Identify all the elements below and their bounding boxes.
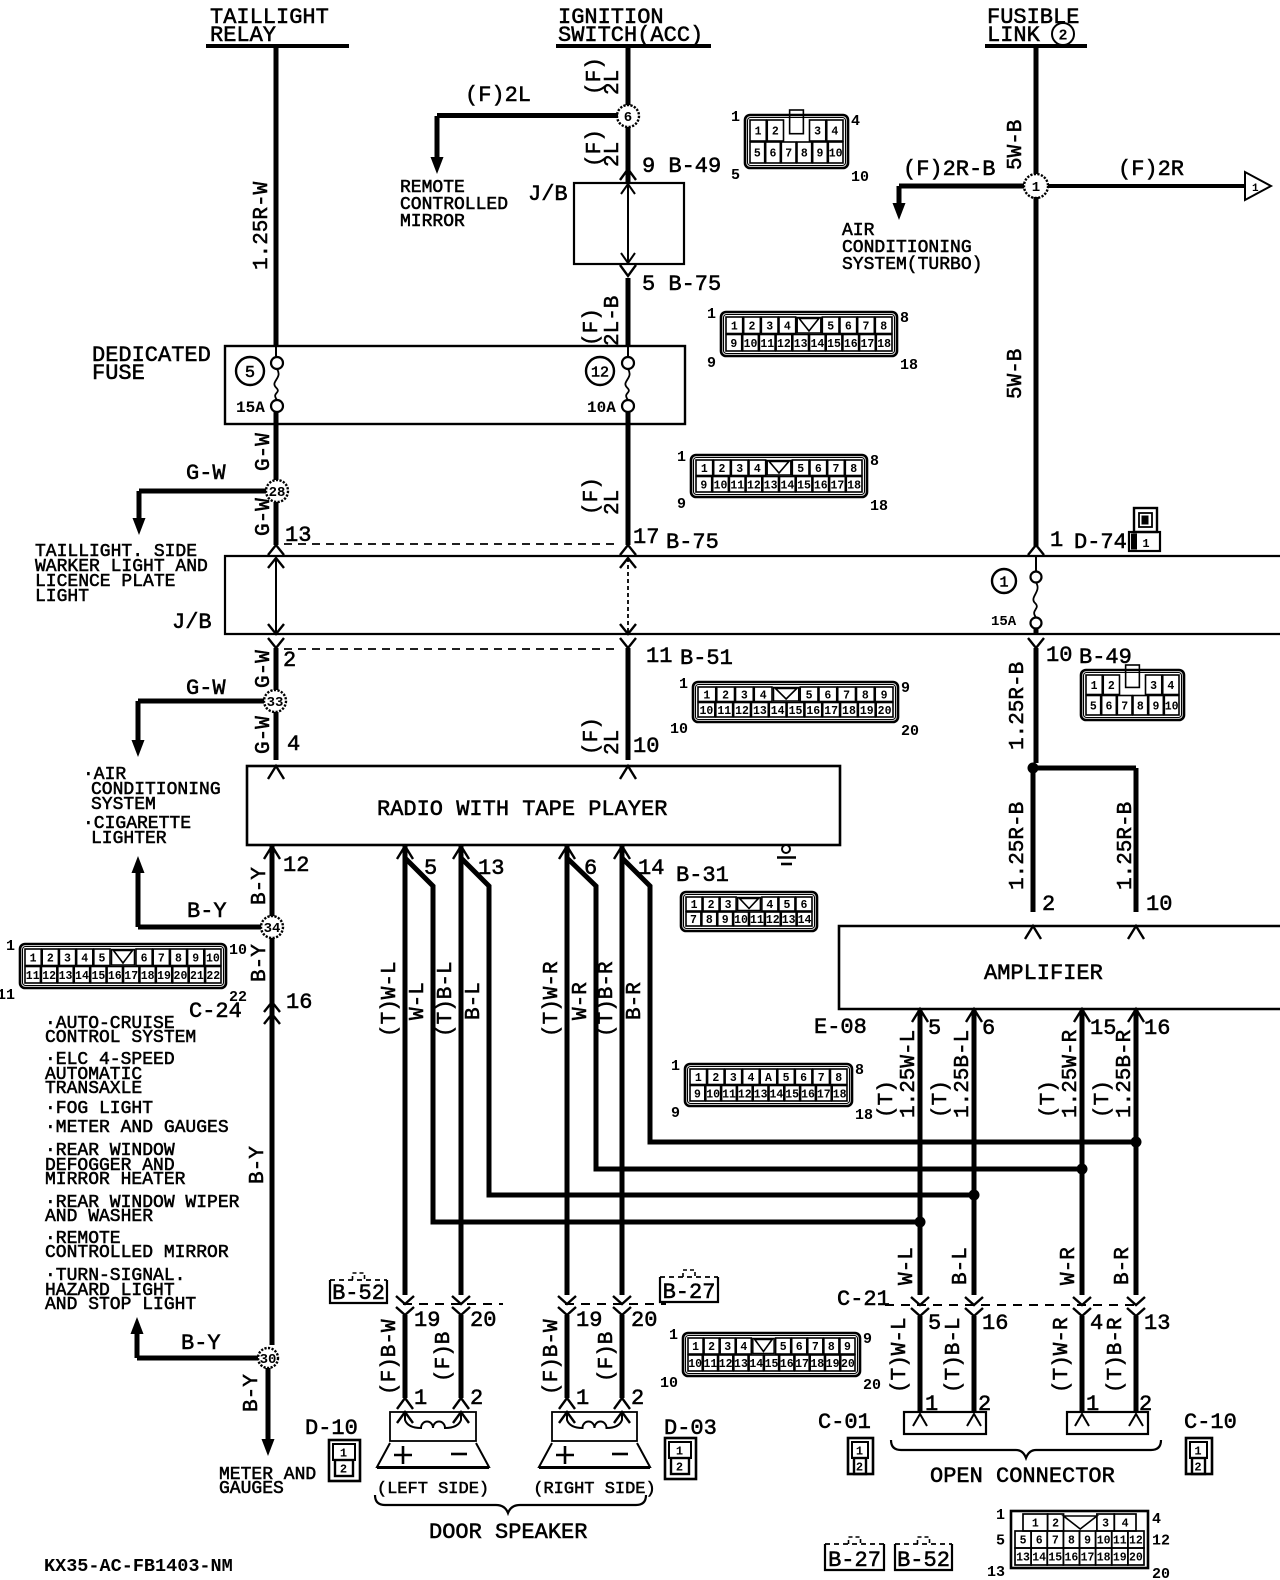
crossing arrow right wire bottom xyxy=(1028,638,1044,648)
svg-text:2L-B: 2L-B xyxy=(602,296,625,346)
svg-text:(T)W-L: (T)W-L xyxy=(379,961,402,1037)
svg-text:2: 2 xyxy=(1058,28,1067,45)
svg-text:18: 18 xyxy=(855,1107,873,1124)
svg-text:4: 4 xyxy=(760,689,767,702)
connector D-03 icon xyxy=(665,1438,696,1479)
junction dot amp 1 xyxy=(915,1217,926,1228)
svg-text:1: 1 xyxy=(707,306,716,323)
svg-text:1: 1 xyxy=(676,1445,683,1459)
svg-text:2L: 2L xyxy=(602,70,625,95)
svg-text:2: 2 xyxy=(1052,1518,1059,1531)
svg-text:1: 1 xyxy=(691,899,698,912)
svg-text:3: 3 xyxy=(814,126,821,139)
svg-text:10: 10 xyxy=(206,952,220,965)
svg-text:19: 19 xyxy=(157,970,171,983)
svg-text:8: 8 xyxy=(1137,700,1144,713)
svg-text:2: 2 xyxy=(712,1072,719,1085)
radio pin 12 arrow xyxy=(264,846,280,859)
wire amp output 16 xyxy=(1134,1009,1139,1295)
svg-text:1: 1 xyxy=(340,1447,347,1461)
svg-text:(F)B: (F)B xyxy=(596,1332,619,1382)
svg-text:4: 4 xyxy=(766,899,773,912)
fuse 1 15A in J/B2 xyxy=(1031,572,1042,583)
svg-text:FUSE: FUSE xyxy=(92,361,145,386)
svg-text:5: 5 xyxy=(928,1311,941,1336)
svg-text:J/B: J/B xyxy=(528,182,568,207)
radio pin 10 arrow xyxy=(620,766,636,779)
svg-text:11: 11 xyxy=(730,479,744,492)
connector arrow 9 B-49 xyxy=(620,169,636,180)
fuse 5 15A xyxy=(271,357,283,369)
svg-text:CONTROL SYSTEM: CONTROL SYSTEM xyxy=(45,1028,196,1048)
svg-text:SYSTEM: SYSTEM xyxy=(91,795,156,815)
svg-text:3: 3 xyxy=(766,320,773,333)
svg-text:9: 9 xyxy=(694,1088,701,1101)
svg-text:13: 13 xyxy=(987,1564,1005,1580)
svg-text:5: 5 xyxy=(780,1341,787,1354)
connector D-10 icon xyxy=(329,1440,360,1481)
svg-text:5: 5 xyxy=(245,364,255,383)
svg-text:20: 20 xyxy=(1152,1566,1170,1580)
C-21 crossing arrows pin 13 xyxy=(1127,1297,1145,1305)
svg-text:12: 12 xyxy=(42,970,56,983)
svg-text:9: 9 xyxy=(901,680,910,697)
svg-text:5: 5 xyxy=(783,1072,790,1085)
svg-text:G-W: G-W xyxy=(253,433,276,471)
svg-text:22: 22 xyxy=(206,970,220,983)
wire speaker straight 3 xyxy=(565,846,570,1295)
svg-text:1: 1 xyxy=(695,1072,702,1085)
svg-text:8: 8 xyxy=(862,689,869,702)
wire (F)2L ignition vertical upper xyxy=(626,48,631,106)
svg-text:J/B: J/B xyxy=(172,610,212,635)
svg-text:10: 10 xyxy=(1165,700,1179,713)
svg-text:19: 19 xyxy=(576,1308,602,1333)
svg-text:15: 15 xyxy=(1090,1016,1116,1041)
svg-text:3: 3 xyxy=(736,463,743,476)
svg-text:1: 1 xyxy=(679,676,688,693)
svg-text:1: 1 xyxy=(692,1341,699,1354)
svg-text:10: 10 xyxy=(1046,643,1072,668)
svg-text:18: 18 xyxy=(842,705,856,718)
wire (F)2L above J/B2 xyxy=(626,424,631,545)
svg-text:9: 9 xyxy=(671,1105,680,1122)
svg-text:18: 18 xyxy=(1097,1552,1111,1565)
svg-text:1.25R-B: 1.25R-B xyxy=(1007,662,1030,750)
wire amp branch diag 2 xyxy=(461,858,974,1195)
junction dot xyxy=(1028,763,1039,774)
svg-text:B-52: B-52 xyxy=(897,1548,950,1573)
svg-text:18: 18 xyxy=(833,1088,847,1101)
svg-text:8: 8 xyxy=(801,148,808,161)
connector E-08 icon xyxy=(685,1064,852,1106)
connector B-75 icon top xyxy=(721,312,897,356)
label B-52 upper box xyxy=(330,1280,387,1303)
svg-text:20: 20 xyxy=(470,1308,496,1333)
wire mid inside J/B2 dashed xyxy=(627,558,629,633)
svg-text:D-74: D-74 xyxy=(1074,530,1127,555)
svg-text:SYSTEM(TURBO): SYSTEM(TURBO) xyxy=(842,255,982,275)
svg-text:2: 2 xyxy=(1194,1461,1201,1475)
svg-text:4: 4 xyxy=(1122,1518,1129,1531)
svg-text:9: 9 xyxy=(1153,700,1160,713)
svg-text:12: 12 xyxy=(738,1088,752,1101)
svg-text:B-Y: B-Y xyxy=(247,1146,270,1184)
svg-text:14: 14 xyxy=(749,1358,763,1371)
svg-text:B-Y: B-Y xyxy=(181,1331,221,1356)
svg-text:8: 8 xyxy=(828,1341,835,1354)
svg-text:15A: 15A xyxy=(991,614,1017,630)
svg-text:C-10: C-10 xyxy=(1184,1410,1237,1435)
fuse 12 10A xyxy=(622,357,634,369)
svg-text:16: 16 xyxy=(982,1311,1008,1336)
svg-text:KX35-AC-FB1403-NM: KX35-AC-FB1403-NM xyxy=(44,1556,233,1577)
svg-text:20: 20 xyxy=(901,723,919,740)
svg-text:10: 10 xyxy=(1097,1535,1111,1548)
svg-text:1: 1 xyxy=(1050,528,1063,553)
svg-text:6: 6 xyxy=(801,899,808,912)
svg-text:1: 1 xyxy=(669,1327,678,1344)
svg-text:11: 11 xyxy=(750,914,764,927)
svg-text:B-R: B-R xyxy=(624,982,647,1020)
svg-text:34: 34 xyxy=(264,921,281,937)
wire G-W to J/B2 xyxy=(274,502,279,545)
svg-text:2: 2 xyxy=(772,126,779,139)
branch wire G-W to taillight xyxy=(139,489,266,494)
svg-text:2L: 2L xyxy=(602,142,625,167)
svg-text:1: 1 xyxy=(1194,1445,1201,1459)
svg-text:B-R: B-R xyxy=(1112,1247,1135,1285)
svg-text:13: 13 xyxy=(764,479,778,492)
svg-text:1: 1 xyxy=(414,1386,427,1411)
svg-text:17: 17 xyxy=(831,479,845,492)
svg-text:16: 16 xyxy=(814,479,828,492)
svg-text:G-W: G-W xyxy=(253,716,276,754)
svg-text:AND WASHER: AND WASHER xyxy=(45,1207,153,1227)
svg-text:5: 5 xyxy=(996,1533,1005,1550)
svg-text:B-27: B-27 xyxy=(828,1548,881,1573)
svg-text:9: 9 xyxy=(817,148,824,161)
svg-text:1: 1 xyxy=(996,1507,1005,1524)
branch wire B-Y to turn signal xyxy=(137,1356,258,1361)
wire 1.25R-W taillight relay vertical xyxy=(274,48,279,347)
label B-27 upper box xyxy=(660,1277,718,1302)
svg-text:1.25W-L: 1.25W-L xyxy=(898,1030,921,1118)
door speaker brace xyxy=(375,1495,646,1513)
dashed line C-21 xyxy=(885,1304,1136,1306)
connector arrow 5 B-75 xyxy=(621,253,635,263)
svg-text:18: 18 xyxy=(141,970,155,983)
wire to open connector 13 xyxy=(1134,1316,1139,1412)
wire 1.25R-B upper xyxy=(1034,648,1039,763)
wire (F)2R horizontal to right arrow xyxy=(1048,184,1245,188)
svg-text:2: 2 xyxy=(722,689,729,702)
svg-text:20: 20 xyxy=(841,1358,855,1371)
svg-text:(T)B-R: (T)B-R xyxy=(1105,1317,1128,1393)
svg-text:1.25R-B: 1.25R-B xyxy=(1007,802,1030,890)
svg-text:W-R: W-R xyxy=(1058,1247,1081,1285)
amp pin 10 arrow xyxy=(1128,926,1144,939)
svg-text:10: 10 xyxy=(670,721,688,738)
wire 1.25R-B left leg xyxy=(1031,768,1036,912)
C-21 crossing arrows pin 5 xyxy=(911,1297,929,1305)
wire amp output 15 xyxy=(1080,1009,1085,1295)
svg-text:10A: 10A xyxy=(587,399,616,417)
svg-text:·FOG LIGHT: ·FOG LIGHT xyxy=(45,1099,153,1119)
svg-text:B-L: B-L xyxy=(463,982,486,1020)
svg-text:19: 19 xyxy=(826,1358,840,1371)
left door speaker xyxy=(390,1412,476,1441)
svg-text:(F)B-W: (F)B-W xyxy=(379,1319,402,1395)
svg-text:(F)2R-B: (F)2R-B xyxy=(903,157,995,182)
svg-text:20: 20 xyxy=(174,970,188,983)
svg-text:18: 18 xyxy=(900,357,918,374)
node 34 splice circle xyxy=(261,916,283,938)
svg-text:G-W: G-W xyxy=(253,650,276,688)
arrow up to turn signal xyxy=(131,1317,144,1334)
svg-text:9: 9 xyxy=(707,355,716,372)
svg-text:11: 11 xyxy=(646,644,672,669)
connector B-49 icon top xyxy=(745,115,848,168)
amp bottom pin 6 arrow xyxy=(966,1009,982,1022)
svg-text:18: 18 xyxy=(847,479,861,492)
svg-text:2L: 2L xyxy=(602,730,625,755)
svg-text:9: 9 xyxy=(700,479,707,492)
svg-text:12: 12 xyxy=(1152,1533,1170,1550)
radio pin 5 arrow xyxy=(397,846,413,859)
svg-text:5: 5 xyxy=(783,899,790,912)
wire B-Y to C-24 xyxy=(270,938,275,1345)
svg-text:13: 13 xyxy=(59,970,73,983)
svg-text:W-R: W-R xyxy=(570,982,593,1020)
speaker wire crossing arrows 567 xyxy=(558,1296,576,1304)
svg-text:5: 5 xyxy=(1090,700,1097,713)
svg-text:16: 16 xyxy=(801,1088,815,1101)
wire amp output 6 xyxy=(972,1009,977,1295)
svg-text:1: 1 xyxy=(671,1058,680,1075)
svg-text:17: 17 xyxy=(633,525,659,550)
speaker wire crossing arrows 405 xyxy=(396,1296,414,1304)
svg-text:9: 9 xyxy=(844,1341,851,1354)
svg-text:10: 10 xyxy=(1146,892,1172,917)
svg-text:12: 12 xyxy=(591,364,609,381)
dashed line B-52 xyxy=(403,1303,503,1305)
open connector box right xyxy=(1067,1412,1148,1434)
svg-text:7: 7 xyxy=(863,320,870,333)
svg-text:11: 11 xyxy=(722,1088,736,1101)
svg-text:14: 14 xyxy=(798,914,812,927)
svg-text:20: 20 xyxy=(863,1377,881,1394)
svg-text:8: 8 xyxy=(706,914,713,927)
junction dot amp 4 xyxy=(1131,1137,1142,1148)
svg-text:10: 10 xyxy=(706,1088,720,1101)
svg-text:1.25B-R: 1.25B-R xyxy=(1114,1029,1137,1118)
svg-text:1.25R-W: 1.25R-W xyxy=(251,181,274,270)
svg-text:2: 2 xyxy=(708,1341,715,1354)
svg-text:12: 12 xyxy=(735,705,749,718)
svg-text:11: 11 xyxy=(1113,1535,1127,1548)
crossing arrows mid wire bottom xyxy=(620,624,636,634)
svg-text:(T): (T) xyxy=(930,1080,953,1118)
wire 1.25R-B right leg xyxy=(1134,768,1139,912)
svg-text:MIRROR: MIRROR xyxy=(400,212,465,232)
svg-text:12: 12 xyxy=(766,914,780,927)
svg-text:14: 14 xyxy=(810,338,824,351)
node 28 splice circle xyxy=(266,480,288,502)
svg-text:8: 8 xyxy=(850,463,857,476)
svg-text:15: 15 xyxy=(1048,1552,1062,1565)
svg-text:3: 3 xyxy=(725,899,732,912)
svg-text:3: 3 xyxy=(741,689,748,702)
svg-text:13: 13 xyxy=(1016,1552,1030,1565)
svg-text:1: 1 xyxy=(1032,1518,1039,1531)
svg-text:5: 5 xyxy=(827,320,834,333)
speaker wire crossing arrows 461 xyxy=(452,1296,470,1304)
svg-text:17: 17 xyxy=(817,1088,831,1101)
wire amp branch diag 3 xyxy=(567,858,1082,1169)
dashed line B-27 xyxy=(565,1303,666,1305)
svg-text:11: 11 xyxy=(26,970,40,983)
speaker terminal arrows 405 xyxy=(397,1398,413,1409)
ignition switch terminal bar xyxy=(556,44,711,48)
svg-text:4: 4 xyxy=(287,732,300,757)
wire (F)2L to radio xyxy=(626,648,631,760)
node 6 splice circle xyxy=(617,105,639,127)
svg-text:13: 13 xyxy=(1144,1311,1170,1336)
wire G-W below fuse xyxy=(274,424,279,480)
svg-text:OPEN CONNECTOR: OPEN CONNECTOR xyxy=(930,1464,1115,1489)
speaker terminal arrows 622 xyxy=(614,1398,630,1409)
svg-text:17: 17 xyxy=(795,1358,809,1371)
svg-text:20: 20 xyxy=(631,1308,657,1333)
wire 5W-B lower segment xyxy=(1034,197,1039,546)
connector D-74 icon xyxy=(1134,508,1157,532)
svg-text:4: 4 xyxy=(1090,1311,1103,1336)
wire to speaker 567 xyxy=(565,1315,570,1398)
svg-text:1: 1 xyxy=(1142,537,1149,551)
svg-text:8: 8 xyxy=(1068,1535,1075,1548)
open connector brace xyxy=(891,1440,1161,1458)
svg-text:7: 7 xyxy=(690,914,697,927)
connector C-01/C-10 20pin icon xyxy=(1011,1511,1148,1568)
junction dot amp 3 xyxy=(1077,1164,1088,1175)
svg-text:8: 8 xyxy=(870,453,879,470)
wire speaker straight 1 xyxy=(403,846,408,1295)
wire G-W to radio xyxy=(274,712,279,760)
svg-text:10: 10 xyxy=(851,169,869,186)
svg-text:1: 1 xyxy=(1252,183,1259,195)
wire node6 to J/B xyxy=(626,127,631,183)
svg-text:15A: 15A xyxy=(236,399,265,417)
fusible link terminal bar xyxy=(985,44,1087,48)
radio ground symbol xyxy=(782,845,790,853)
svg-text:6: 6 xyxy=(815,463,822,476)
svg-text:5 B-75: 5 B-75 xyxy=(642,272,721,297)
svg-text:5W-B: 5W-B xyxy=(1005,349,1028,399)
svg-text:2: 2 xyxy=(856,1461,863,1475)
svg-text:2: 2 xyxy=(978,1392,991,1417)
svg-text:20: 20 xyxy=(878,705,892,718)
svg-text:21: 21 xyxy=(190,970,204,983)
svg-text:LIGHTER: LIGHTER xyxy=(91,829,167,849)
wire B-Y to meter xyxy=(266,1368,271,1440)
svg-text:1: 1 xyxy=(1091,680,1098,693)
dedicated fuse box xyxy=(225,346,685,424)
svg-text:1.25R-B: 1.25R-B xyxy=(1115,802,1138,890)
connector B-75 icon second xyxy=(691,455,867,497)
speaker terminal arrows 461 xyxy=(453,1398,469,1409)
svg-text:W-L: W-L xyxy=(407,982,430,1020)
svg-text:2: 2 xyxy=(631,1386,644,1411)
wire amp branch diag 1 xyxy=(405,858,920,1222)
junction dot amp 2 xyxy=(969,1190,980,1201)
svg-text:17: 17 xyxy=(124,970,138,983)
svg-text:5: 5 xyxy=(754,148,761,161)
branch wire G-W to AC/cig xyxy=(138,699,264,704)
svg-text:14: 14 xyxy=(769,1088,783,1101)
svg-text:15: 15 xyxy=(827,338,841,351)
svg-text:1: 1 xyxy=(1032,180,1040,196)
crossing arrows left wire top xyxy=(268,545,284,555)
svg-text:(T)B-R: (T)B-R xyxy=(596,961,619,1037)
svg-text:3: 3 xyxy=(724,1341,731,1354)
svg-text:3: 3 xyxy=(730,1072,737,1085)
svg-text:B-51: B-51 xyxy=(680,646,733,671)
svg-text:7: 7 xyxy=(1052,1535,1059,1548)
svg-text:TRANSAXLE: TRANSAXLE xyxy=(45,1079,142,1099)
svg-text:1: 1 xyxy=(703,689,710,702)
svg-text:(T)W-L: (T)W-L xyxy=(889,1317,912,1393)
svg-text:(F)B-W: (F)B-W xyxy=(541,1319,564,1395)
svg-text:7: 7 xyxy=(818,1072,825,1085)
svg-text:12: 12 xyxy=(283,853,309,878)
svg-text:A: A xyxy=(765,1072,772,1085)
svg-text:8: 8 xyxy=(835,1072,842,1085)
wire to open connector 16 xyxy=(972,1316,977,1412)
svg-text:13: 13 xyxy=(794,338,808,351)
connector B-31 icon xyxy=(681,892,817,931)
svg-text:9: 9 xyxy=(863,1331,872,1348)
svg-text:B-Y: B-Y xyxy=(249,867,272,905)
svg-text:9: 9 xyxy=(1084,1535,1091,1548)
svg-text:2L: 2L xyxy=(602,490,625,515)
svg-text:(F)B: (F)B xyxy=(433,1332,456,1382)
svg-text:G-W: G-W xyxy=(253,498,276,536)
svg-text:8: 8 xyxy=(855,1062,864,1079)
svg-text:1.25B-L: 1.25B-L xyxy=(952,1030,975,1118)
wire speaker straight 4 xyxy=(620,846,625,1295)
svg-text:1: 1 xyxy=(999,574,1008,591)
svg-text:B-Y: B-Y xyxy=(249,944,272,982)
svg-text:G-W: G-W xyxy=(186,461,226,486)
svg-text:(T)W-R: (T)W-R xyxy=(1051,1317,1074,1393)
svg-text:6: 6 xyxy=(982,1016,995,1041)
node 30 splice circle xyxy=(258,1348,278,1368)
wire (F)2R-B horizontal xyxy=(899,184,1024,189)
connector C-24 icon xyxy=(20,944,226,988)
svg-text:17: 17 xyxy=(1081,1552,1095,1565)
svg-text:13: 13 xyxy=(754,1088,768,1101)
svg-text:6: 6 xyxy=(141,952,148,965)
svg-text:14: 14 xyxy=(780,479,794,492)
arrow to AC cigarette xyxy=(132,740,145,757)
wire left inside J/B2 xyxy=(275,558,277,633)
svg-text:10: 10 xyxy=(633,734,659,759)
svg-text:10: 10 xyxy=(700,705,714,718)
svg-text:9 B-49: 9 B-49 xyxy=(642,154,721,179)
node 33 splice circle xyxy=(264,690,286,712)
junction block J/B box xyxy=(574,183,684,264)
